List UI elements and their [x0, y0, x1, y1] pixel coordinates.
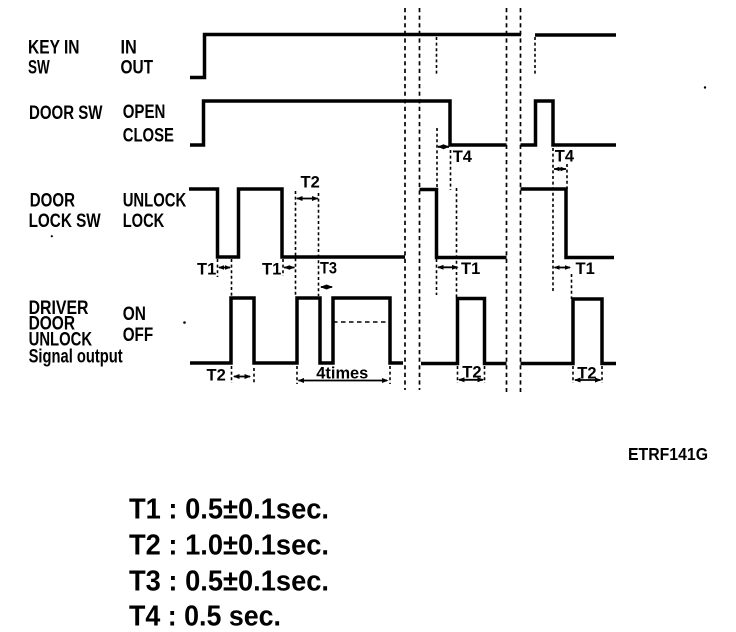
annotation T2 (section 2 driver pulse) — [458, 364, 485, 383]
label DOOR LOCK SW — [29, 189, 102, 232]
annotation 4times with span arrow — [297, 365, 390, 384]
wire DRIVER DOOR UNLOCK signal middle section — [421, 299, 507, 364]
svg-text:T1: T1 — [197, 261, 216, 279]
svg-text:ETRF141G: ETRF141G — [628, 444, 708, 464]
label UNLOCK / LOCK levels — [123, 189, 187, 232]
wire KEY IN SW waveform left section — [190, 35, 521, 78]
wire dashed continuation line inside 4times block — [333, 321, 386, 323]
svg-text:T3: T3 — [320, 260, 337, 278]
svg-text:SW: SW — [28, 57, 50, 79]
svg-text:LOCK SW: LOCK SW — [29, 210, 102, 232]
node dashed drop under KEY IN line at x=535 — [534, 37, 536, 75]
node scan speck middle — [183, 321, 186, 324]
svg-text:T1: T1 — [576, 260, 595, 278]
svg-text:KEY IN: KEY IN — [28, 36, 80, 58]
wire DRIVER DOOR UNLOCK signal right section — [521, 299, 617, 364]
annotation T1 (section 3) — [554, 260, 595, 299]
svg-text:OPEN: OPEN — [123, 101, 166, 123]
label DRIVER DOOR UNLOCK Signal output — [29, 297, 123, 368]
svg-text:T4: T4 — [453, 148, 473, 166]
svg-text:T4 : 0.5 sec.: T4 : 0.5 sec. — [129, 601, 281, 632]
annotation T4 second (door sw pulse fall, section 3) — [553, 148, 575, 291]
svg-text:T2 : 1.0±0.1sec.: T2 : 1.0±0.1sec. — [129, 530, 329, 562]
wire DOOR SW waveform right section with pulse — [521, 101, 617, 145]
svg-text:DOOR: DOOR — [30, 189, 75, 211]
annotation T2 above door lock sw — [296, 174, 320, 297]
label ON / OFF levels — [123, 303, 154, 346]
node time-axis break dashed line 1a x=405 — [404, 8, 406, 390]
svg-text:OFF: OFF — [123, 324, 154, 346]
annotation T1 first (door lock sw section 1) — [197, 259, 232, 296]
svg-text:T1 : 0.5±0.1sec.: T1 : 0.5±0.1sec. — [129, 494, 329, 526]
label IN / OUT levels — [121, 36, 154, 78]
wire DOOR LOCK SW waveform middle section — [420, 190, 507, 258]
annotation T2 under first driver pulse — [207, 366, 255, 385]
svg-text:Signal output: Signal output — [29, 346, 123, 368]
svg-text:T1: T1 — [262, 261, 281, 279]
svg-text:T4: T4 — [555, 148, 575, 166]
svg-text:IN: IN — [121, 36, 137, 58]
svg-text:T2: T2 — [207, 367, 226, 385]
svg-text:T1: T1 — [461, 260, 480, 278]
wire DOOR SW waveform left section — [190, 101, 507, 145]
svg-text:UNLOCK: UNLOCK — [123, 189, 187, 211]
svg-text:OUT: OUT — [121, 57, 154, 79]
svg-text:DOOR SW: DOOR SW — [29, 102, 103, 124]
node scan speck top right — [704, 86, 706, 88]
wire DOOR LOCK SW waveform left section — [189, 189, 405, 257]
annotation T2 (section 3 driver pulse) — [573, 365, 602, 383]
annotation T4 first (door sw fall, section 2) — [437, 128, 473, 190]
node time-axis break dashed line 2b x=520.5 — [520, 8, 522, 392]
annotation T1 (section 2) — [437, 188, 481, 298]
svg-text:CLOSE: CLOSE — [123, 125, 174, 147]
wire KEY IN SW waveform right section — [535, 33, 616, 37]
label OPEN / CLOSE levels — [123, 101, 174, 147]
annotation T1 second (door lock sw section 1) — [262, 191, 296, 296]
svg-text:ON: ON — [123, 303, 146, 325]
label KEY IN SW — [28, 36, 80, 78]
svg-text:4times: 4times — [316, 365, 368, 383]
node scan speck left — [51, 235, 53, 237]
wire DOOR LOCK SW waveform right section — [521, 189, 615, 258]
svg-text:T3 : 0.5±0.1sec.: T3 : 0.5±0.1sec. — [129, 566, 329, 598]
svg-text:LOCK: LOCK — [123, 210, 165, 232]
annotation T3 (gap in pulse train) — [320, 260, 337, 290]
node dashed drop under KEY IN line at x=436.5 — [436, 37, 438, 75]
svg-text:T2: T2 — [301, 174, 320, 192]
node time-axis break dashed line 2a x=506.5 — [506, 8, 508, 392]
node time-axis break dashed line 1b x=419.5 — [419, 8, 421, 390]
wire DRIVER DOOR UNLOCK signal left section — [190, 298, 403, 363]
